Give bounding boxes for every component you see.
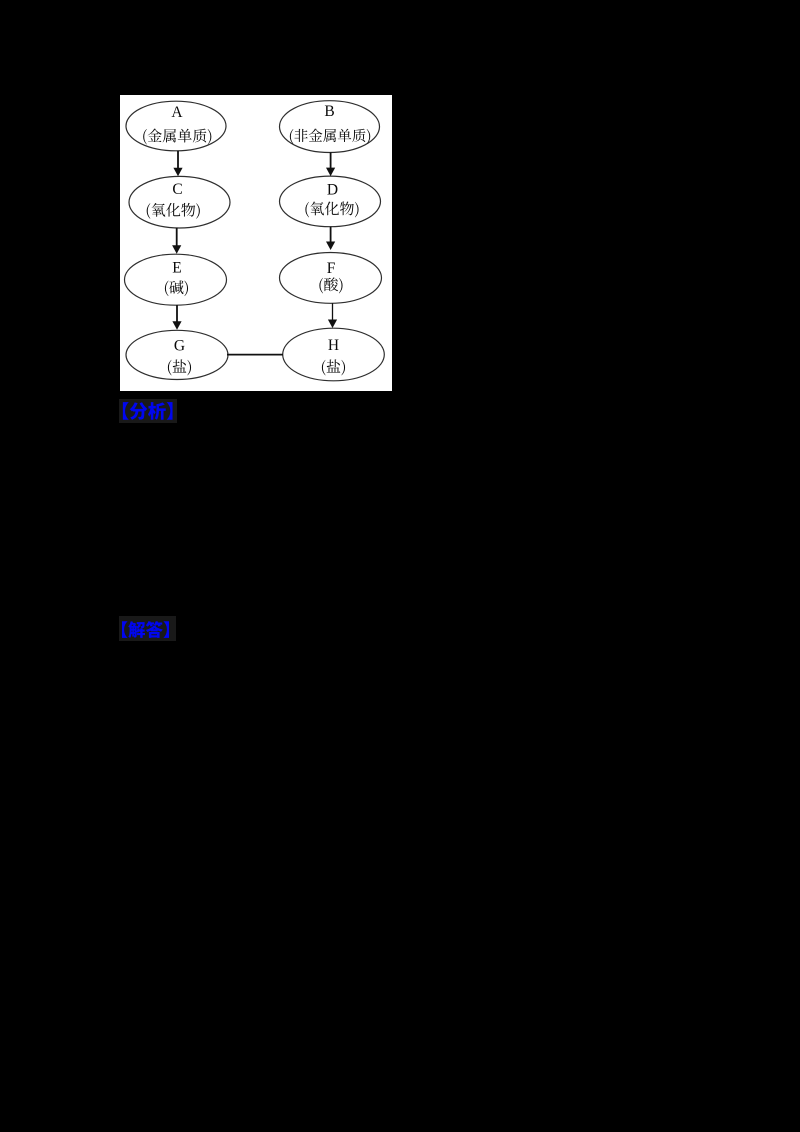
wire G to H connector line [227,354,283,356]
node C name (氧化物) [147,203,200,219]
node B (非金属单质) ellipse [280,101,380,153]
svg-text:F: F [327,260,336,277]
svg-text:A: A [171,104,183,121]
node G name (盐) [168,359,191,375]
node C (氧化物) ellipse [129,176,230,228]
label 【解答】 heading [119,616,176,641]
svg-text:C: C [172,181,182,198]
arrow F to H [328,303,337,328]
arrow A to C [173,151,182,176]
label 【分析】 heading [119,399,177,423]
arrow D to F [326,227,335,251]
svg-text:G: G [174,338,185,355]
node G (盐) ellipse [126,330,228,379]
node D name (氧化物) [305,202,358,218]
arrow B to D [326,152,335,176]
node E name (碱) [165,280,188,296]
svg-text:E: E [172,259,181,276]
arrow C to E [172,228,181,254]
node E (碱) ellipse [125,254,227,305]
svg-text:D: D [327,181,338,198]
arrow E to G [172,305,181,330]
svg-text:B: B [324,103,334,120]
node F name (酸) [319,277,342,293]
node H (盐) ellipse [283,328,385,381]
node D (氧化物) ellipse [280,176,381,227]
node B name (非金属单质) [290,129,370,144]
node F (酸) ellipse [280,253,382,304]
diagram panel (white flowchart box) [120,95,392,391]
node A name (金属单质) [143,129,211,145]
node H name (盐) [322,359,345,375]
svg-text:H: H [328,337,339,354]
node A (金属单质) ellipse [126,101,226,151]
